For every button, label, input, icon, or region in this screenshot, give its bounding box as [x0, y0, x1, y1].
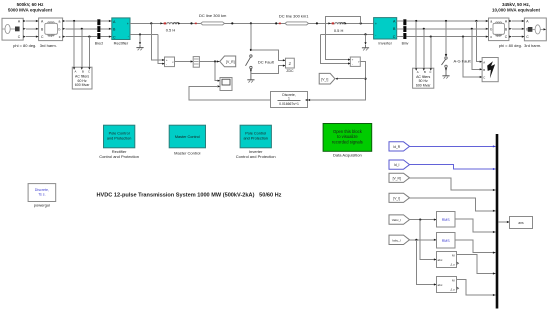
svg-text:-: - [128, 34, 129, 38]
svg-text:ans: ans [518, 221, 524, 225]
red segment before DC line 1 [195, 23, 197, 25]
svg-text:a: a [490, 20, 492, 24]
node: fault block tap C [462, 36, 464, 38]
svg-text:Control and Protection: Control and Protection [236, 154, 276, 159]
svg-text:∠u: ∠u [450, 263, 455, 267]
svg-text:recorded signals: recorded signals [332, 139, 363, 144]
svg-text:phi = 80 deg. 3rd harm.: phi = 80 deg. 3rd harm. [13, 43, 57, 48]
wire: rectifier + output DC rail [130, 22, 164, 24]
node: dot before DC line 2 [275, 22, 277, 24]
svg-text:RMS: RMS [442, 239, 451, 243]
discrete transfer fcn block [271, 92, 308, 108]
wire: VM inverter output down to discrete tf [310, 62, 366, 100]
wire: mux to ans scope [498, 221, 509, 223]
svg-text:A: A [417, 70, 419, 74]
wire: tap A down [415, 21, 417, 68]
svg-text:abc: abc [438, 258, 443, 262]
wire: tap B down to AC filters [81, 29, 83, 67]
node: inverter ground junction [364, 33, 366, 35]
svg-text:DC Fault: DC Fault [258, 60, 275, 65]
wire: RMS2 to mux bus (stepped) [455, 240, 496, 254]
svg-text:[V_R]: [V_R] [226, 60, 235, 64]
svg-text:and Protection: and Protection [243, 137, 268, 141]
node: filter tap C [88, 36, 90, 38]
svg-text:+: + [127, 22, 129, 26]
ground (rectifier side) [136, 35, 143, 51]
wire Brect bus to Rectifier (3 phases) [100, 20, 111, 38]
node: right filter tap C [430, 36, 432, 38]
svg-text:A: A [483, 60, 485, 64]
node: V_I junction [364, 78, 366, 80]
svg-text:Pole Control: Pole Control [245, 132, 266, 136]
block RMS1 [437, 212, 456, 228]
wire: RMS1 to mux bus (stepped) [455, 219, 496, 233]
wire: Id_R to mux bus (blue) [410, 145, 496, 147]
node: filter tap B [81, 28, 83, 30]
mux bus bar [496, 134, 499, 309]
svg-text:a: a [59, 20, 61, 24]
node: junction before DC line 1 [190, 22, 192, 24]
subsystem: Master Control (teal) [169, 125, 205, 155]
svg-text:C: C [393, 35, 396, 39]
svg-text:Control and Protection: Control and Protection [99, 154, 139, 159]
from tag Iabc_I [389, 235, 410, 244]
smoothing reactor 0.5 H (inverter side) [328, 22, 346, 33]
node: DC fault tap junction [250, 22, 252, 24]
svg-text:b: b [59, 27, 61, 31]
discrete filter block (striped icon) [193, 57, 199, 68]
svg-text:600 Mvar: 600 Mvar [416, 83, 431, 87]
node: dot after DC line 1 [231, 22, 233, 24]
AC filters 60 Hz 600 Mvar block [72, 67, 92, 89]
svg-text:600 Mvar: 600 Mvar [75, 83, 90, 87]
block sequence analyzer 2 [437, 277, 459, 293]
from tag [V_I] [389, 193, 410, 202]
svg-text:b: b [490, 27, 492, 31]
wire: breaker top to ZDC input 1 [251, 50, 286, 60]
scope (rectifier voltage) [218, 78, 232, 91]
svg-text:Discrete,: Discrete, [35, 188, 49, 192]
smoothing reactor 0.5 H (rectifier side) [160, 22, 180, 32]
wire: V_I to mux bus (stepped) [410, 198, 496, 212]
svg-text:Ts s.: Ts s. [38, 192, 45, 196]
wire: Id_I to mux bus (blue, stepped) [410, 165, 496, 171]
svg-text:C: C [88, 69, 90, 73]
svg-text:c: c [490, 35, 492, 39]
svg-text:[V_R]: [V_R] [393, 176, 401, 180]
wire inverter to Binv bus (3 phases) [397, 21, 404, 37]
svg-text:1: 1 [288, 97, 290, 101]
AC filters 50 Hz 600 Mvar block [413, 68, 434, 88]
wire: DC line 1 to fault tap [225, 22, 286, 24]
converter block: Rectifier [112, 18, 130, 46]
svg-text:B: B [424, 70, 426, 74]
node: filter tap A [73, 20, 75, 22]
wire: analyzer1 M to mux bus (stepped) [457, 255, 496, 275]
svg-text:10,000 MVA equivalent: 10,000 MVA equivalent [492, 8, 541, 13]
DC line 300 km block [199, 13, 227, 25]
svg-text:Rectifier: Rectifier [114, 41, 129, 46]
wire source to transformer (3 phases) [26, 21, 39, 37]
svg-text:-: - [375, 33, 376, 37]
wire: Vabc_I junction down to sequence analyzer 1 [420, 220, 436, 261]
block RMS2 [437, 233, 456, 249]
transformer T2 (right) [489, 18, 512, 41]
svg-text:+: + [375, 22, 377, 26]
goto tag [V_I] [319, 73, 335, 84]
wire: Vabc_I to RMS1 [410, 219, 437, 221]
block ans display [510, 217, 533, 229]
wire: tap C down [430, 37, 432, 69]
wire: plus tap down to VM input 1 [151, 23, 164, 60]
wire transformer to right source (3 phases) [512, 21, 525, 37]
node: fault block tap A [475, 20, 477, 22]
svg-text:C: C [113, 35, 116, 39]
svg-text:c: c [59, 35, 61, 39]
wire: tap B to fault block [472, 29, 482, 70]
DC line 300 km1 block [279, 13, 309, 25]
svg-text:Pole Control: Pole Control [109, 132, 130, 136]
wire: junction down to scope input 1 [215, 62, 220, 81]
breaker: DC Fault [246, 23, 275, 73]
source AC2 345kV block [522, 18, 547, 41]
red segment before DC line 2 [279, 23, 281, 25]
goto tag [V_R] [220, 56, 236, 67]
transformer T1 (left) [36, 18, 65, 41]
wire: inverter V tap loop (+) [326, 17, 361, 60]
voltage measurement VM (rectifier) [162, 57, 174, 67]
wire: inverter minus rail [321, 33, 374, 35]
voltage measurement VM (inverter) [348, 57, 360, 66]
wire: minus tap down to VM input 2 [158, 35, 165, 64]
subsystem: Inverter Pole Control (teal) [236, 125, 276, 159]
three-phase fault block [482, 58, 498, 82]
svg-text:B: B [82, 69, 84, 73]
wire: junction to V_I goto [338, 78, 366, 80]
ground (A-G fault) [442, 73, 449, 79]
wire: breaker bottom to ZDC input 2 [251, 66, 286, 74]
ground (DC fault) [247, 74, 254, 83]
svg-text:DC line 300 km: DC line 300 km [199, 13, 227, 18]
svg-text:-: - [352, 63, 353, 66]
from tag Id_I (blue) [389, 160, 410, 169]
svg-text:Id_R: Id_R [393, 145, 401, 149]
svg-text:Vabc_I: Vabc_I [392, 218, 402, 222]
bus Brect [95, 19, 103, 45]
wire: V_R to mux bus (stepped) [410, 178, 496, 191]
wire: DC line 2 to inverter [309, 22, 332, 24]
converter block: Inverter [374, 18, 397, 46]
svg-text:Brect: Brect [95, 42, 103, 46]
svg-text:345kV, 50 Hz,: 345kV, 50 Hz, [502, 2, 530, 7]
wire: tap B down [423, 29, 425, 68]
wire: rectifier - output rail [130, 34, 158, 36]
svg-text:0.5 H: 0.5 H [334, 28, 344, 33]
svg-text:B: B [483, 68, 485, 72]
breaker: A-G Fault switch [442, 20, 472, 73]
wire: Iabc_I junction down to sequence analyzer 2 [416, 240, 436, 286]
wire: Iabc_I to RMS2 [410, 239, 437, 241]
svg-text:0.016667s+1: 0.016667s+1 [279, 102, 299, 106]
subsystem: Rectifier Pole Control (teal) [99, 125, 139, 159]
svg-text:phi = 80 deg. 3rd harm.: phi = 80 deg. 3rd harm. [499, 43, 542, 48]
svg-text:-: - [166, 64, 167, 67]
svg-text:0.5 H: 0.5 H [166, 28, 176, 33]
ground (inverter side) [362, 34, 369, 50]
svg-text:A: A [75, 69, 77, 73]
svg-text:∠u: ∠u [450, 288, 455, 292]
svg-text:HVDC 12-pulse Transmission Sys: HVDC 12-pulse Transmission System 1000 M… [97, 192, 282, 198]
from tag Vabc_I [389, 215, 410, 224]
node: V tap junction on + rail [150, 22, 152, 24]
wire: inverter minus tap down to VM input 2 [321, 34, 351, 63]
svg-text:Master Control: Master Control [174, 150, 200, 155]
bus Binv [402, 19, 409, 45]
label: 500kV 60 Hz equivalent title [8, 2, 53, 13]
wire Binv to right transformer (3 phases) [406, 20, 488, 38]
node: right filter tap B [423, 28, 425, 30]
svg-text:[V_I]: [V_I] [321, 77, 328, 81]
label: 345kV 50 Hz equivalent title [492, 2, 541, 13]
wire: filter to V_R goto and scope [199, 61, 219, 63]
from tag Id_R (blue) [389, 142, 410, 151]
node: inverter V tap junction [360, 22, 362, 24]
svg-text:abc: abc [438, 283, 443, 287]
wire: VM to discrete filter [175, 61, 194, 63]
wire: tap A down to AC filters [73, 21, 75, 67]
node: rectifier ground junction [139, 33, 141, 35]
svg-text:[V_I]: [V_I] [393, 196, 400, 200]
svg-text:C: C [483, 76, 485, 80]
svg-text:5000 MVA equivalent: 5000 MVA equivalent [8, 8, 53, 13]
svg-text:C: C [429, 70, 431, 74]
svg-text:A-G Fault: A-G Fault [453, 59, 471, 64]
svg-text:500kV, 60 Hz: 500kV, 60 Hz [17, 2, 45, 7]
source AC1 500kV block [2, 18, 26, 40]
from tag [V_R] [389, 173, 410, 182]
wire transformer to Brect bus (3 phases) [65, 21, 97, 37]
svg-text:Inverter: Inverter [378, 40, 392, 45]
svg-text:Id_I: Id_I [394, 163, 400, 167]
svg-text:ZDC: ZDC [286, 69, 294, 73]
wire: reactor to inverter + port [347, 22, 374, 24]
wire: tap A to fault block [476, 21, 482, 62]
block sequence analyzer 1 [437, 252, 459, 268]
svg-text:DC line 300 km1: DC line 300 km1 [279, 13, 309, 18]
node: V_R junction [214, 60, 216, 62]
svg-text:Data Acquisition: Data Acquisition [333, 153, 362, 158]
wire: discrete tf output to scope input 2 [189, 86, 270, 100]
svg-text:Iabc_I: Iabc_I [392, 238, 401, 242]
wire: tap C down to AC filters [88, 37, 90, 68]
wire: tap C to fault block [463, 37, 482, 77]
svg-text:Master Control: Master Control [175, 135, 200, 139]
svg-text:Binv: Binv [402, 42, 409, 46]
node: junction after DC line 2 [316, 22, 318, 24]
svg-text:powergui: powergui [34, 202, 50, 207]
powergui block [28, 184, 56, 208]
svg-text:and Protection: and Protection [107, 137, 132, 141]
wire: reactor to DC line 1 [180, 22, 201, 24]
wire: analyzer2 M to mux bus (stepped) [457, 280, 496, 297]
svg-text:RMS: RMS [442, 218, 451, 222]
node: right filter tap A [415, 20, 417, 22]
node: fault block tap B [471, 28, 473, 30]
impedance measurement ZDC [286, 58, 295, 73]
subsystem: Data Acquisition (green) [323, 124, 372, 158]
